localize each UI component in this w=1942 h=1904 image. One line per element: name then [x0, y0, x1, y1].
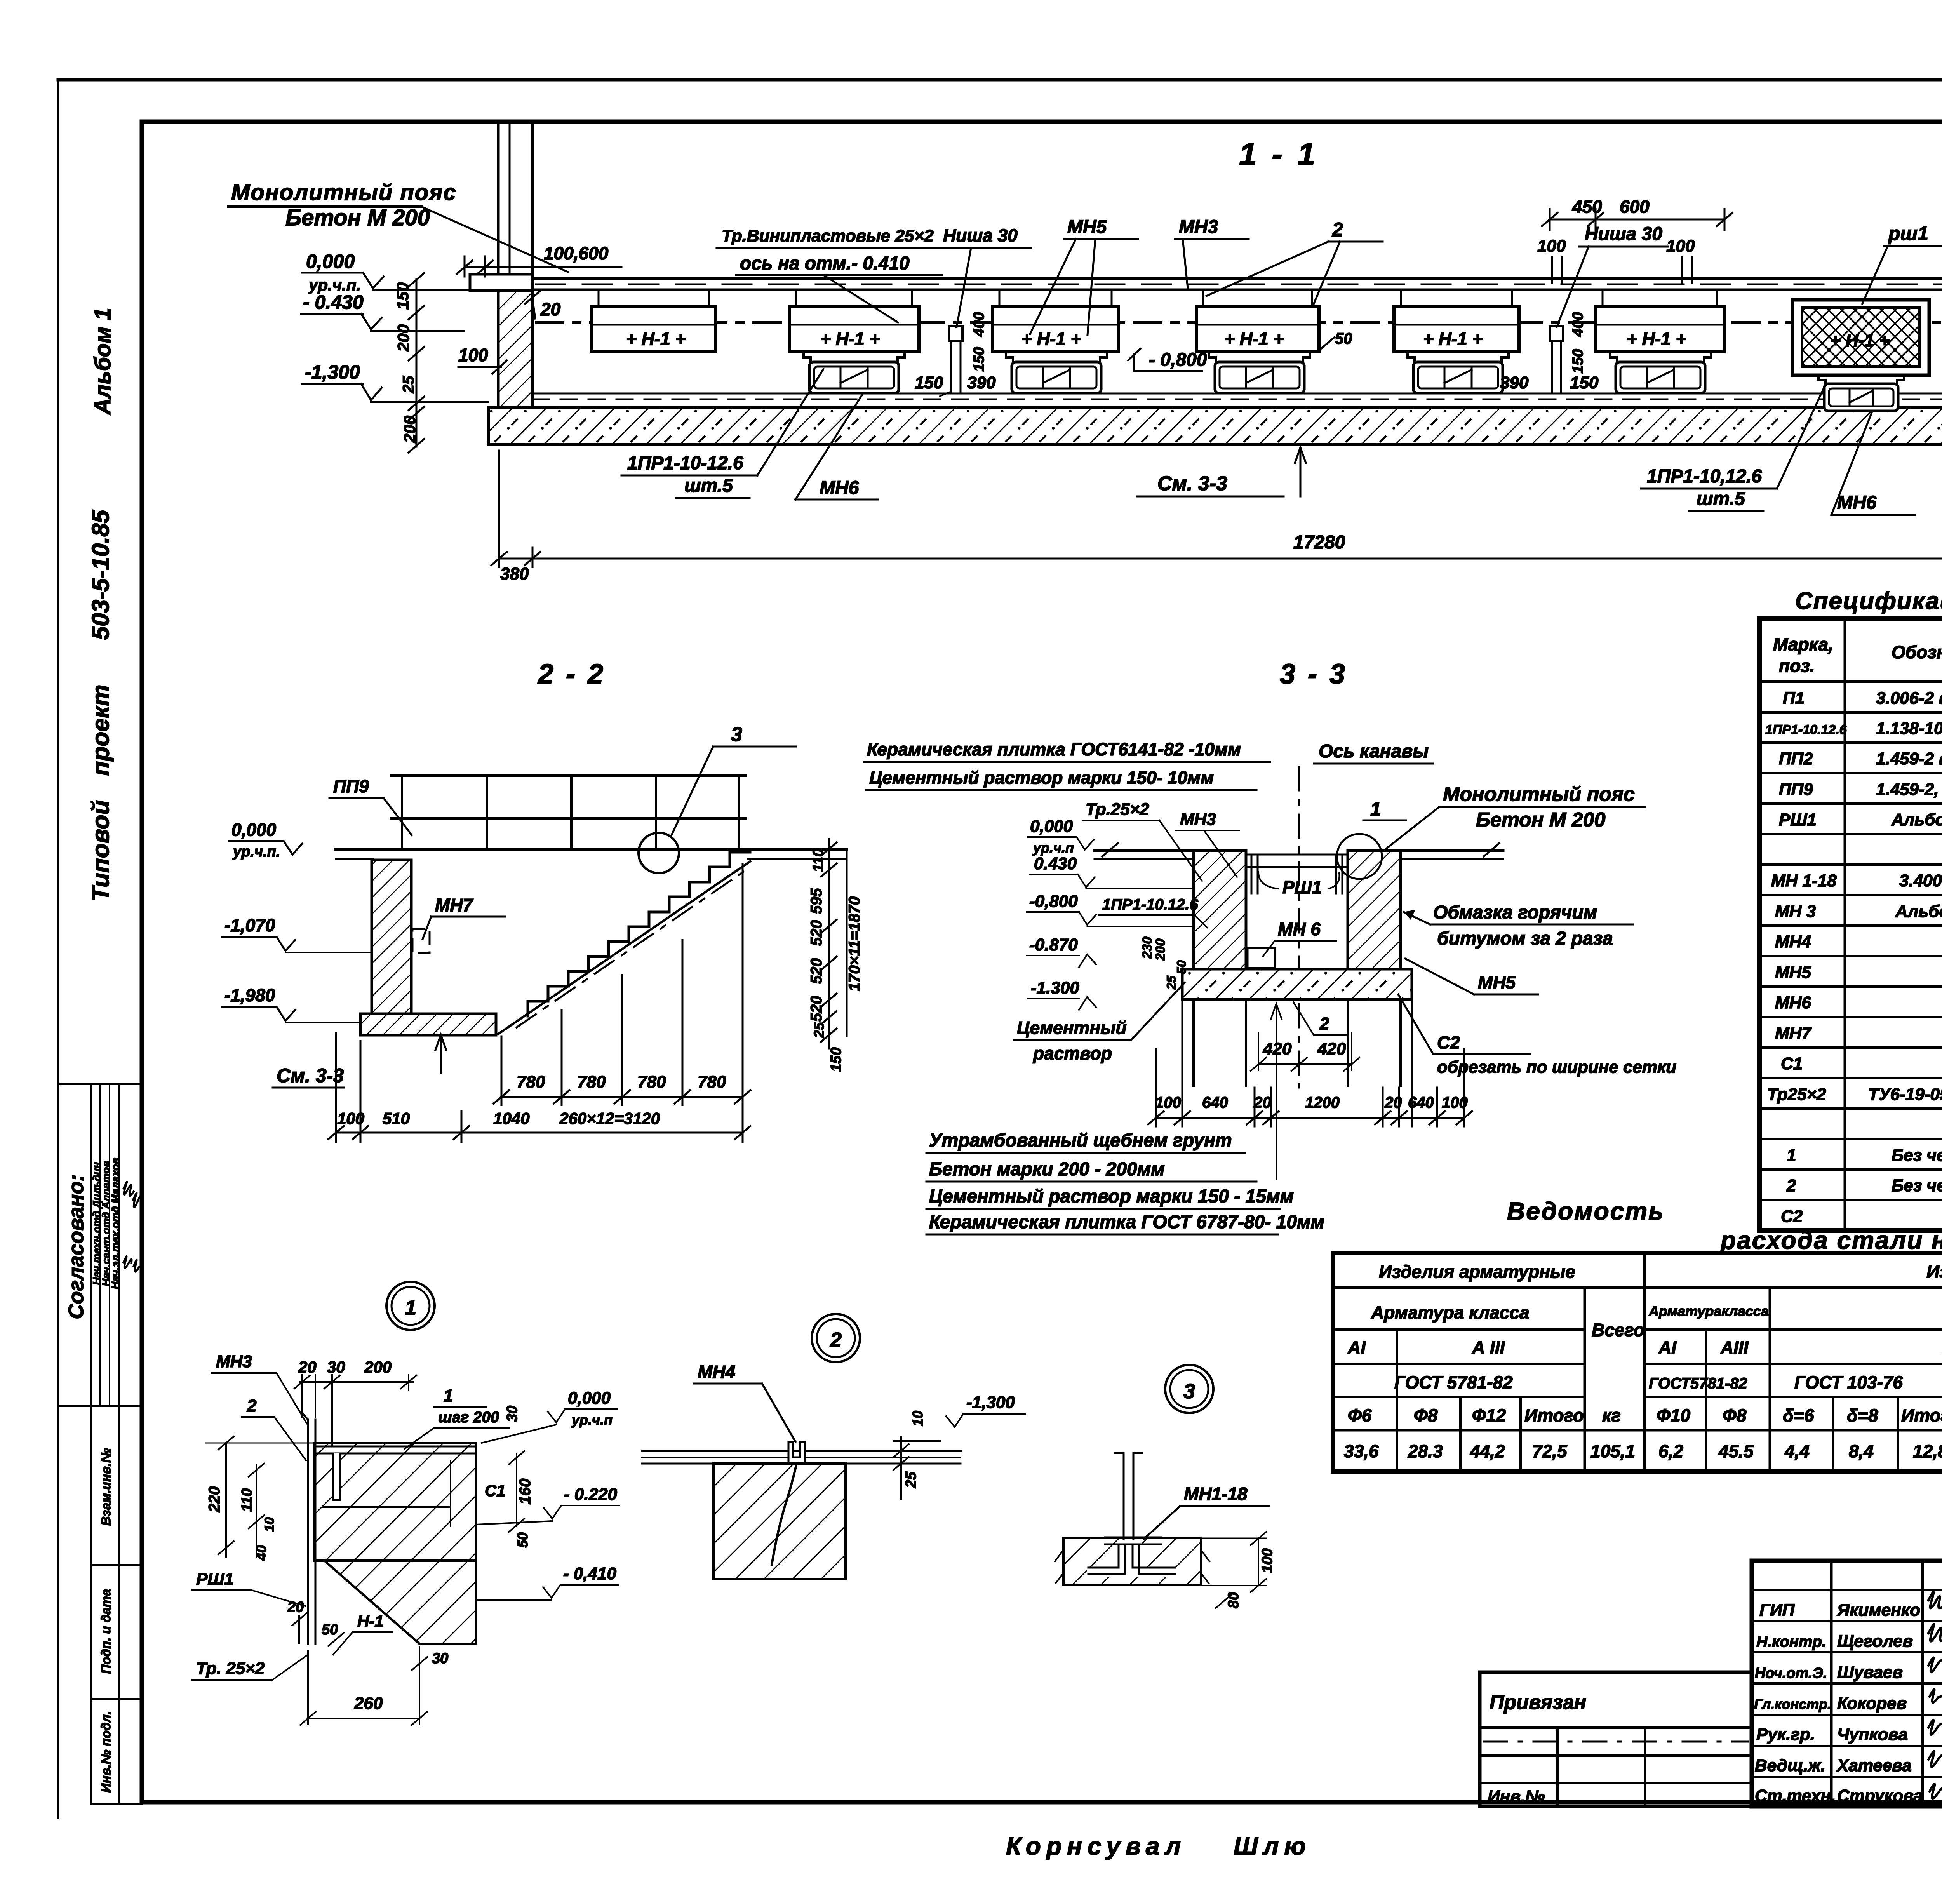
sidebar approval column lines — [99, 1084, 101, 1406]
channel MN6 under box 3 — [1006, 352, 1107, 393]
svg-text:МН5: МН5 — [1775, 963, 1811, 982]
detail circle 1 — [1337, 834, 1382, 879]
svg-text:510: 510 — [383, 1109, 410, 1128]
svg-text:8,4: 8,4 — [1849, 1441, 1874, 1461]
svg-text:3.400 - 6/76: 3.400 - 6/76 — [1899, 871, 1942, 890]
niche 1 — [949, 326, 962, 393]
specification header texts — [1773, 634, 1942, 680]
sheet outer border left — [57, 80, 59, 1818]
svg-text:1: 1 — [1370, 798, 1381, 820]
svg-text:МН7: МН7 — [435, 895, 474, 915]
pit floor slab 3-3 — [1182, 969, 1412, 999]
bottom dims 2-2 row2 — [328, 1033, 750, 1142]
svg-text:δ=8: δ=8 — [1847, 1405, 1878, 1425]
svg-text:640: 640 — [1202, 1094, 1228, 1111]
svg-text:Согласовано:: Согласовано: — [64, 1175, 88, 1319]
svg-text:3.006-2 вып.ІІ-2: 3.006-2 вып.ІІ-2 — [1876, 689, 1942, 708]
sidebar bottom — [91, 1803, 142, 1805]
svg-text:Арматура класса: Арматура класса — [1371, 1302, 1530, 1323]
node2 concrete block — [713, 1464, 846, 1579]
svg-text:-1,300: -1,300 — [966, 1393, 1015, 1412]
svg-text:50: 50 — [515, 1532, 531, 1548]
svg-text:Ведомость: Ведомость — [1507, 1197, 1664, 1225]
svg-text:ГОСТ 5781-82: ГОСТ 5781-82 — [1394, 1372, 1513, 1392]
svg-text:2: 2 — [1786, 1176, 1796, 1195]
svg-text:ПП2: ПП2 — [1779, 749, 1813, 768]
svg-text:780: 780 — [577, 1072, 606, 1091]
svg-text:ур.ч.п: ур.ч.п — [1032, 840, 1074, 856]
notes leader line up — [1276, 1007, 1277, 1179]
svg-text:390: 390 — [1500, 373, 1529, 392]
svg-text:80: 80 — [1225, 1592, 1242, 1608]
channel MN6 under box 2 — [804, 352, 905, 393]
svg-text:поз.: поз. — [1779, 656, 1815, 676]
svg-text:Гл.констр.: Гл.констр. — [1754, 1696, 1831, 1712]
svg-text:20: 20 — [298, 1358, 317, 1376]
svg-text:ГИП: ГИП — [1759, 1601, 1795, 1620]
node3 concrete band — [1063, 1538, 1201, 1585]
svg-text:40: 40 — [253, 1545, 269, 1561]
svg-text:Тр25×2: Тр25×2 — [1767, 1085, 1826, 1104]
svg-text:Тр. 25×2: Тр. 25×2 — [196, 1659, 265, 1678]
svg-text:Ниша 30: Ниша 30 — [1585, 224, 1662, 244]
svg-text:45.5: 45.5 — [1718, 1441, 1754, 1461]
svg-text:220: 220 — [206, 1486, 223, 1513]
sidebar vertical main — [90, 1084, 92, 1804]
svg-text:АІІІ: АІІІ — [1720, 1337, 1749, 1358]
svg-text:Альбом 1: Альбом 1 — [90, 308, 115, 415]
svg-text:Цементный раствор марки 150: Цементный раствор марки 150- 10мм — [869, 768, 1214, 788]
sidebar vertical mid — [118, 1084, 120, 1804]
steel table values — [1344, 1441, 1942, 1461]
node1 top plate lines — [315, 1446, 476, 1448]
svg-text:2: 2 — [1332, 219, 1343, 240]
svg-text:-0,800: -0,800 — [1029, 892, 1078, 911]
svg-text:420: 420 — [1263, 1039, 1292, 1058]
svg-text:30: 30 — [327, 1358, 345, 1376]
svg-text:+ Н-1 +: + Н-1 + — [1830, 330, 1890, 350]
svg-text:АІ: АІ — [1347, 1337, 1366, 1358]
svg-text:6,2: 6,2 — [1658, 1441, 1683, 1461]
svg-text:Цементный раствор марки 150: Цементный раствор марки 150 - 15мм — [929, 1186, 1294, 1207]
node1 anchor angle — [315, 1453, 340, 1500]
svg-text:Бетон М 200: Бетон М 200 — [1476, 809, 1606, 831]
svg-text:100: 100 — [1537, 237, 1566, 256]
steel table header texts — [1347, 1262, 1942, 1431]
node1 concrete lower wedge — [324, 1561, 476, 1644]
svg-text:30: 30 — [504, 1406, 520, 1422]
svg-text:Нач.эл.тех.отд Малахов: Нач.эл.тех.отд Малахов — [110, 1158, 121, 1289]
svg-text:- 0,800: - 0,800 — [1149, 350, 1207, 370]
svg-text:1ПР1-10.12.6: 1ПР1-10.12.6 — [1102, 896, 1198, 913]
svg-text:1ПР1-10,12.6: 1ПР1-10,12.6 — [1647, 466, 1762, 487]
sidebar signatures — [124, 1182, 141, 1272]
node1 mesh line C1 — [322, 1506, 451, 1508]
MN6 channel 3-3 — [1248, 948, 1275, 968]
svg-text:25: 25 — [903, 1471, 919, 1488]
svg-text:0.430: 0.430 — [1034, 854, 1077, 873]
svg-text:Шуваев: Шуваев — [1837, 1663, 1903, 1682]
svg-text:1040: 1040 — [493, 1109, 529, 1128]
svg-text:44,2: 44,2 — [1470, 1441, 1505, 1461]
svg-text:200: 200 — [364, 1358, 392, 1376]
svg-text:+ Н-1 +: + Н-1 + — [1627, 329, 1686, 349]
svg-text:Ф12: Ф12 — [1472, 1405, 1506, 1425]
svg-text:С2: С2 — [1781, 1207, 1803, 1226]
node2 anchor channel — [788, 1442, 805, 1463]
node3 anchor white clearances — [1117, 1541, 1141, 1576]
svg-text:400: 400 — [1570, 312, 1586, 337]
privyazan column lines — [1556, 1728, 1559, 1807]
svg-text:100: 100 — [337, 1109, 364, 1128]
RSh1 grating box — [1792, 300, 1929, 375]
svg-text:раствор: раствор — [1032, 1043, 1112, 1063]
svg-text:ТУ6-19-051- 249-79: ТУ6-19-051- 249-79 — [1868, 1085, 1942, 1104]
svg-text:780: 780 — [698, 1072, 726, 1091]
svg-text:Инв.№: Инв.№ — [1488, 1787, 1545, 1806]
svg-text:1.459-2, вып.2: 1.459-2, вып.2 — [1876, 780, 1942, 799]
svg-text:20: 20 — [1253, 1094, 1271, 1111]
svg-text:расхода стали на: расхода стали на канаву — [1720, 1226, 1942, 1254]
svg-text:1: 1 — [444, 1386, 453, 1405]
svg-text:Ф10: Ф10 — [1657, 1405, 1690, 1425]
channel MN6 under box 5 — [1408, 352, 1509, 393]
svg-text:Без чертежа: Без чертежа — [1892, 1176, 1942, 1195]
svg-text:110: 110 — [239, 1488, 255, 1512]
svg-text:380: 380 — [500, 564, 529, 583]
niche 2 — [1550, 326, 1563, 393]
svg-text:Обозначение: Обозначение — [1892, 642, 1942, 662]
svg-text:12,8: 12,8 — [1913, 1441, 1942, 1461]
title block — [1480, 1561, 1942, 1807]
stairs 2-2 — [528, 852, 750, 1016]
svg-text:3: 3 — [731, 723, 742, 746]
svg-text:503-5-10.85: 503-5-10.85 — [87, 509, 114, 640]
node1 left dim chain — [206, 1436, 322, 1558]
H-1 box 2 — [789, 290, 919, 352]
svg-text:100: 100 — [458, 345, 488, 365]
svg-text:10: 10 — [910, 1411, 926, 1426]
sidebar box bottom (approvals) — [58, 1405, 142, 1407]
svg-text:200: 200 — [1153, 939, 1168, 961]
svg-text:33,6: 33,6 — [1344, 1441, 1379, 1461]
svg-text:Утрамбованный щебнем грунт: Утрамбованный щебнем грунт — [929, 1130, 1232, 1151]
grate RSh1 top — [1246, 855, 1348, 893]
svg-text:Н.контр.: Н.контр. — [1756, 1633, 1826, 1650]
svg-text:МН6: МН6 — [1837, 493, 1877, 513]
svg-text:МН6: МН6 — [1775, 993, 1811, 1012]
left wall above ground lines — [498, 124, 532, 279]
svg-text:105,1: 105,1 — [1590, 1441, 1635, 1461]
railing posts — [402, 775, 739, 849]
node 3 marker circle — [1165, 1365, 1213, 1413]
left ledge (monolithic belt) — [470, 274, 532, 291]
left sidebar lines — [58, 1084, 142, 1804]
node3 break marks — [1055, 1550, 1063, 1583]
node1 vertical plate — [307, 1420, 309, 1644]
svg-text:δ=6: δ=6 — [1783, 1405, 1814, 1425]
svg-text:шт.5: шт.5 — [684, 475, 733, 496]
ground line 2-2 — [336, 848, 847, 851]
svg-text:Щеголев: Щеголев — [1837, 1632, 1913, 1651]
svg-text:50: 50 — [1335, 330, 1352, 347]
svg-text:2: 2 — [1319, 1014, 1329, 1033]
svg-text:- 0.220: - 0.220 — [564, 1485, 618, 1504]
svg-text:Ноч.от.Э.: Ноч.от.Э. — [1755, 1665, 1827, 1681]
svg-text:20: 20 — [540, 299, 561, 319]
svg-text:1: 1 — [405, 1296, 416, 1319]
left wall 3-3 — [1194, 851, 1246, 969]
svg-text:Кокорев: Кокорев — [1837, 1694, 1907, 1713]
svg-text:ур.ч.п.: ур.ч.п. — [232, 844, 280, 860]
svg-text:170×11=1870: 170×11=1870 — [846, 896, 863, 991]
svg-text:Без чертежа: Без чертежа — [1892, 1146, 1942, 1165]
svg-text:600: 600 — [1620, 197, 1650, 217]
railing rails — [392, 774, 746, 777]
svg-text:Цементный: Цементный — [1017, 1018, 1127, 1038]
svg-text:Тр.Винипластовые 25×2: Тр.Винипластовые 25×2 — [722, 226, 934, 245]
svg-text:МН3: МН3 — [1180, 810, 1216, 829]
title block outline — [1752, 1561, 1942, 1807]
svg-text:РШ1: РШ1 — [196, 1570, 234, 1589]
H-1 box 6 — [1596, 290, 1724, 352]
node3 anchor left leg — [1088, 1544, 1119, 1568]
svg-text:50: 50 — [1175, 960, 1189, 974]
svg-text:-1,070: -1,070 — [224, 915, 275, 935]
svg-text:1ПР1-10-12.6: 1ПР1-10-12.6 — [627, 453, 743, 473]
svg-text:шаг 200: шаг 200 — [438, 1409, 499, 1426]
node2 wavy anchor tail — [772, 1464, 797, 1565]
svg-text:Арматуракласса: Арматуракласса — [1648, 1303, 1769, 1319]
svg-text:Подп. и дата: Подп. и дата — [99, 1589, 113, 1674]
svg-text:ГОСТ5781-82: ГОСТ5781-82 — [1649, 1375, 1747, 1392]
svg-text:РШ1: РШ1 — [1779, 810, 1817, 829]
svg-text:-1,980: -1,980 — [224, 985, 275, 1005]
svg-text:1 - 1: 1 - 1 — [1239, 137, 1318, 172]
svg-text:20: 20 — [1384, 1094, 1402, 1111]
svg-text:150: 150 — [971, 347, 987, 371]
svg-text:См. 3-3: См. 3-3 — [1157, 472, 1227, 495]
svg-text:Ф6: Ф6 — [1348, 1405, 1372, 1425]
svg-text:50: 50 — [322, 1622, 338, 1638]
svg-text:Итого: Итого — [1901, 1405, 1942, 1425]
sidebar box top (approvals) — [58, 1083, 142, 1085]
svg-text:520: 520 — [808, 920, 825, 946]
svg-text:520: 520 — [808, 958, 825, 984]
svg-text:- 0.430: - 0.430 — [303, 291, 364, 313]
svg-text:1.459-2 вып.2: 1.459-2 вып.2 — [1876, 749, 1942, 768]
svg-text:ось на отм.- 0.410: ось на отм.- 0.410 — [740, 253, 910, 274]
specification rows — [1765, 689, 1942, 1231]
svg-text:0,000: 0,000 — [568, 1389, 611, 1408]
floor hatched band — [490, 409, 1942, 443]
floor slab lines — [489, 393, 1942, 445]
svg-text:200: 200 — [400, 416, 419, 443]
node 2 marker circle — [812, 1314, 860, 1362]
svg-text:100,600: 100,600 — [544, 243, 609, 263]
svg-text:ур.ч.п: ур.ч.п — [571, 1412, 613, 1428]
svg-text:+ Н-1 +: + Н-1 + — [1423, 329, 1483, 349]
svg-text:МН3: МН3 — [216, 1352, 252, 1371]
svg-text:150: 150 — [1570, 349, 1586, 373]
svg-text:МН1-18: МН1-18 — [1184, 1484, 1248, 1504]
svg-text:Типовой: Типовой — [87, 800, 114, 902]
svg-text:Марка,: Марка, — [1773, 634, 1833, 654]
svg-text:МН 3: МН 3 — [1775, 902, 1816, 921]
svg-text:См. 3-3: См. 3-3 — [277, 1065, 344, 1086]
svg-text:битумом за 2 раза: битумом за 2 раза — [1437, 928, 1613, 949]
svg-text:Ст.техн.: Ст.техн. — [1755, 1786, 1836, 1805]
svg-text:150: 150 — [393, 282, 412, 310]
svg-text:780: 780 — [637, 1072, 666, 1091]
svg-text:А ІІІ: А ІІІ — [1472, 1337, 1505, 1358]
left wall hatched — [498, 291, 532, 407]
svg-text:1: 1 — [1787, 1146, 1796, 1165]
svg-text:С1: С1 — [485, 1481, 506, 1500]
svg-text:595: 595 — [808, 888, 825, 914]
svg-text:2: 2 — [247, 1396, 257, 1415]
svg-text:-1,300: -1,300 — [305, 361, 360, 383]
svg-text:МН6: МН6 — [820, 478, 859, 498]
svg-text:Ф8: Ф8 — [1723, 1405, 1747, 1425]
detail circle 3 — [639, 833, 679, 873]
svg-text:МН5: МН5 — [1067, 217, 1107, 237]
svg-text:420: 420 — [1317, 1039, 1346, 1058]
channel MN6 under box 4 — [1209, 352, 1310, 393]
node1 concrete upper — [315, 1443, 476, 1561]
svg-text:Ось канавы: Ось канавы — [1319, 741, 1429, 762]
svg-text:Корнсувал Шлю: Корнсувал Шлю — [1006, 1832, 1311, 1860]
svg-text:1ПР1-10.12.6: 1ПР1-10.12.6 — [1765, 722, 1847, 737]
svg-text:30: 30 — [432, 1650, 448, 1667]
channel MN6 under box 6 — [1610, 352, 1711, 393]
signature table texts — [1754, 1601, 1923, 1805]
svg-text:Альбом ІІ: Альбом ІІ — [1895, 902, 1942, 921]
svg-text:Бетон М 200: Бетон М 200 — [285, 205, 430, 230]
svg-text:МН4: МН4 — [1775, 932, 1811, 951]
svg-text:110: 110 — [810, 849, 827, 872]
svg-text:Инв.№ подл.: Инв.№ подл. — [99, 1711, 113, 1793]
svg-text:25: 25 — [811, 1022, 827, 1038]
svg-text:390: 390 — [967, 373, 996, 392]
svg-text:150: 150 — [1570, 373, 1599, 392]
svg-text:200: 200 — [394, 324, 412, 352]
channel MN6 under RSh1 — [1818, 375, 1904, 411]
node3 anchor horizontal plate — [1105, 1537, 1161, 1539]
svg-text:10: 10 — [262, 1517, 277, 1532]
svg-text:0,000: 0,000 — [306, 251, 355, 272]
bottom dims 2-2 row1 — [494, 864, 750, 1142]
svg-text:проект: проект — [87, 685, 114, 776]
svg-text:Якименко: Якименко — [1837, 1601, 1920, 1620]
svg-text:230: 230 — [1140, 937, 1155, 959]
node 1 marker circle — [386, 1282, 435, 1330]
svg-text:Монолитный пояс: Монолитный пояс — [231, 180, 457, 205]
svg-text:0,000: 0,000 — [231, 820, 277, 840]
svg-text:МН 6: МН 6 — [1278, 919, 1321, 939]
axis dash-dot line — [536, 321, 1942, 324]
svg-text:2 - 2: 2 - 2 — [537, 659, 606, 690]
svg-text:+ Н-1 +: + Н-1 + — [1224, 329, 1284, 349]
ground lines 3-3 — [1095, 849, 1194, 852]
svg-text:РШ1: РШ1 — [1282, 877, 1322, 897]
svg-text:Бетон марки 200: Бетон марки 200 - 200мм — [929, 1159, 1165, 1180]
svg-text:-1.300: -1.300 — [1031, 978, 1079, 997]
svg-text:0,000: 0,000 — [1030, 817, 1073, 836]
svg-text:25: 25 — [400, 376, 417, 393]
svg-text:Чупкова: Чупкова — [1837, 1725, 1908, 1744]
svg-text:Изделия арматурные: Изделия арматурные — [1379, 1262, 1575, 1282]
svg-text:28.3: 28.3 — [1408, 1441, 1443, 1461]
svg-text:100: 100 — [1259, 1548, 1276, 1573]
svg-text:МН 1-18: МН 1-18 — [1771, 871, 1837, 890]
svg-text:3: 3 — [1183, 1380, 1195, 1403]
svg-text:Керамическая плитка ГОСТ6141: Керамическая плитка ГОСТ6141-82 -10мм — [867, 739, 1241, 759]
svg-text:Взам.инв.№: Взам.инв.№ — [99, 1448, 113, 1526]
svg-text:1.138-10 вып.1: 1.138-10 вып.1 — [1876, 719, 1942, 738]
svg-text:640: 640 — [1408, 1094, 1434, 1111]
svg-text:МН7: МН7 — [1775, 1024, 1812, 1043]
signature table columns — [1830, 1561, 1833, 1807]
node3 anchor right leg — [1133, 1544, 1175, 1568]
left vertical dim chain — [409, 273, 424, 453]
svg-text:Монолитный пояс: Монолитный пояс — [1443, 783, 1635, 806]
svg-text:450: 450 — [1572, 197, 1602, 217]
svg-text:4,4: 4,4 — [1784, 1441, 1810, 1461]
svg-text:-0.870: -0.870 — [1029, 935, 1078, 954]
svg-text:20: 20 — [287, 1599, 304, 1615]
svg-text:260: 260 — [354, 1694, 383, 1713]
MN7 hidden outline — [412, 929, 430, 953]
svg-text:кг: кг — [1602, 1405, 1621, 1425]
svg-text:Тр.25×2: Тр.25×2 — [1086, 800, 1150, 819]
svg-text:3 - 3: 3 - 3 — [1280, 659, 1347, 690]
svg-text:2: 2 — [830, 1328, 842, 1352]
svg-text:С2: С2 — [1437, 1032, 1460, 1053]
svg-text:Альбом - ІІ: Альбом - ІІ — [1891, 810, 1942, 829]
signature table rows — [1752, 1589, 1942, 1591]
bottom dims 3-3 — [1148, 1002, 1472, 1126]
svg-text:ПП9: ПП9 — [1779, 780, 1813, 799]
svg-text:С1: С1 — [1781, 1054, 1803, 1073]
svg-text:Рук.гр.: Рук.гр. — [1756, 1725, 1815, 1744]
svg-text:Хатеева: Хатеева — [1836, 1756, 1912, 1775]
svg-text:Ф8: Ф8 — [1414, 1405, 1438, 1425]
sidebar divider podp — [91, 1698, 142, 1700]
H-1 box 1 — [592, 290, 716, 352]
svg-text:400: 400 — [971, 312, 987, 337]
svg-text:Струкова: Струкова — [1837, 1786, 1923, 1805]
svg-text:100: 100 — [1442, 1094, 1468, 1111]
svg-text:Н-1: Н-1 — [357, 1612, 384, 1630]
right dim chain 2-2 — [821, 839, 847, 1049]
svg-text:Привязан: Привязан — [1490, 1691, 1586, 1714]
svg-text:+ Н-1 +: + Н-1 + — [820, 329, 880, 349]
svg-text:150: 150 — [828, 1047, 844, 1072]
svg-text:П1: П1 — [1783, 689, 1805, 708]
pit left wall 2-2 — [372, 860, 411, 1014]
svg-text:АІ: АІ — [1658, 1337, 1677, 1358]
svg-text:1200: 1200 — [1305, 1094, 1340, 1111]
node3 anchor vertical plate — [1123, 1453, 1125, 1539]
right wall 3-3 — [1348, 851, 1401, 969]
top slab lines — [532, 279, 1942, 290]
svg-text:25: 25 — [1164, 975, 1178, 990]
svg-text:Керамическая плитка ГОСТ 6787-: Керамическая плитка ГОСТ 6787-80- 10мм — [929, 1212, 1324, 1232]
axis line 3-3 — [1298, 767, 1300, 1088]
svg-text:160: 160 — [517, 1479, 534, 1505]
signature squiggles — [1928, 1592, 1942, 1799]
